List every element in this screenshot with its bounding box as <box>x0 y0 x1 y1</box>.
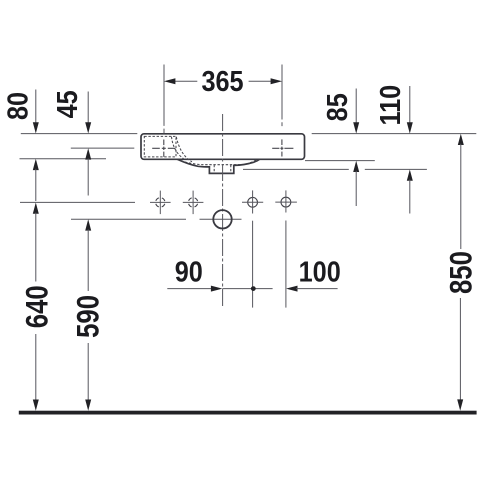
dimension 850 <box>458 134 464 145</box>
hidden fixing hole left (dashed circle) <box>150 191 171 215</box>
bowl profile with drain boss <box>178 159 260 173</box>
svg-text:90: 90 <box>175 255 203 288</box>
basin lower edge extension right (85 target) <box>305 160 375 162</box>
tap-hole height line (45 target) <box>71 147 135 149</box>
dimension 45 <box>87 92 89 125</box>
dimension 365 line and arrows <box>175 80 198 82</box>
dimension 640 <box>33 203 39 214</box>
basin hidden shelf (dashed rect) <box>144 136 176 157</box>
dimension 110 <box>409 86 411 124</box>
rim reference line right segment <box>312 133 477 135</box>
outlet hole small circle right <box>275 190 297 307</box>
dimension 100 <box>286 286 298 292</box>
rim reference line left segment <box>21 133 138 135</box>
dimension 365 extension left <box>163 65 165 126</box>
svg-text:100: 100 <box>299 255 341 288</box>
hidden fixing hole right (dashed circle) <box>183 191 204 215</box>
svg-text:45: 45 <box>50 90 83 118</box>
dimension 90 <box>167 288 212 290</box>
hidden drain boss sides <box>213 165 215 173</box>
svg-text:365: 365 <box>202 64 244 97</box>
basin body outline <box>141 134 305 160</box>
main vertical centre line <box>222 114 224 308</box>
fixing hole line (640 target) <box>20 201 135 203</box>
right tap hole cross <box>272 139 293 156</box>
dimension 80 <box>35 90 37 125</box>
dimension 365 extension right <box>281 65 283 120</box>
svg-text:590: 590 <box>71 295 106 338</box>
dimension 85 <box>355 89 357 125</box>
waste outlet big circle <box>213 210 231 228</box>
hidden bowl bottom <box>181 160 257 165</box>
outlet hole small circle left <box>242 190 263 307</box>
basin lower edge extension left (80 target) <box>20 158 107 160</box>
hidden bowl curve inner <box>172 137 184 159</box>
svg-text:640: 640 <box>20 285 55 328</box>
svg-text:85: 85 <box>320 93 353 121</box>
outlet centre line (590 target) <box>71 218 186 220</box>
hidden bowl curve outer <box>176 137 192 162</box>
chain dot <box>251 286 256 291</box>
svg-text:80: 80 <box>1 92 34 120</box>
left tap hole cross <box>152 140 175 157</box>
lowest point extension line (110 target) <box>243 168 349 170</box>
svg-text:850: 850 <box>444 251 479 294</box>
svg-text:110: 110 <box>374 85 407 126</box>
dimension 590 <box>85 219 91 230</box>
floor line <box>19 411 477 415</box>
